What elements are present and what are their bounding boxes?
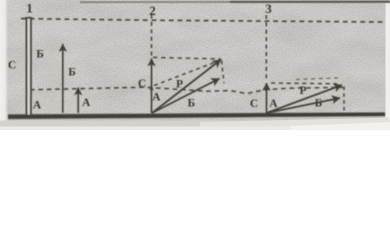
- svg-text:Р: Р: [176, 79, 183, 91]
- svg-text:1: 1: [26, 1, 33, 16]
- svg-text:Р: Р: [300, 85, 307, 97]
- svg-text:2: 2: [149, 3, 156, 18]
- svg-text:Б: Б: [36, 49, 44, 61]
- svg-text:А: А: [269, 98, 278, 110]
- svg-text:С: С: [250, 98, 258, 110]
- svg-text:С: С: [138, 78, 146, 90]
- svg-text:3: 3: [265, 1, 272, 16]
- svg-text:С: С: [8, 60, 16, 72]
- svg-text:Б: Б: [315, 98, 323, 110]
- svg-text:Б: Б: [68, 67, 76, 79]
- svg-text:А: А: [82, 97, 91, 109]
- svg-text:А: А: [33, 100, 42, 112]
- svg-text:А: А: [152, 91, 161, 103]
- svg-text:Б: Б: [188, 98, 196, 110]
